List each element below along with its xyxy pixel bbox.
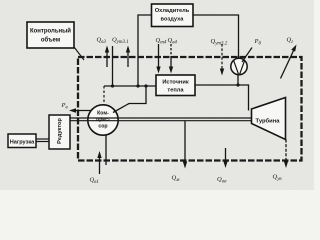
- svg-text:тепла: тепла: [167, 88, 184, 94]
- fan/blower circle (Pб): [231, 58, 247, 74]
- arrow Qв1 (up into compressor, crosses bottom boundary): [97, 151, 101, 174]
- control volume dashed boundary: [78, 57, 302, 161]
- arrow Qут3.2 (dashed, down, crosses top boundary): [220, 44, 224, 76]
- wire: shaft gearbox-compressor (double line, crosses boundary): [70, 118, 89, 121]
- node: junction dot at fan drop: [236, 83, 239, 86]
- arrow Qв4 (down into heat source, upper part dashed): [169, 44, 173, 74]
- svg-text:Турбина: Турбина: [256, 118, 281, 125]
- arrow Qг (diagonal up-right, crosses top boundary): [281, 45, 297, 79]
- wire: manifold line to heat source: [104, 85, 156, 87]
- wire: fan bottom to hot pipe: [237, 75, 239, 85]
- arrow Qм mechanical loss (from shaft down through bottom boundary): [183, 121, 187, 169]
- svg-text:объем: объем: [41, 37, 61, 44]
- wire: cooler right side pipe to fan: [193, 15, 239, 58]
- wire: dashed drop from manifold to compressor top: [103, 86, 105, 105]
- arrow Qов (down through bottom boundary): [223, 148, 227, 168]
- compressor circle: [88, 105, 118, 135]
- wire: shaft load-gearbox (double line): [36, 139, 49, 142]
- box "Редуктор" (gearbox, vertical text): [49, 115, 70, 149]
- label box "Контрольный объем": [27, 22, 74, 48]
- wire: pipe B from cooler left side down to manifold: [138, 15, 152, 86]
- svg-text:Охладитель: Охладитель: [155, 8, 190, 14]
- svg-text:Источник: Источник: [162, 80, 189, 86]
- wire: compressor outlet to manifold: [113, 86, 146, 113]
- wire: shaft compressor-turbine (double line, passes through compressor): [88, 118, 252, 121]
- svg-text:сор: сор: [98, 124, 107, 130]
- svg-text:воздуха: воздуха: [161, 17, 185, 23]
- svg-text:Нагрузка: Нагрузка: [10, 139, 35, 145]
- box "Источник тепла" (heat source): [156, 75, 195, 96]
- node: junction dot pipe B: [136, 84, 139, 87]
- arrow Qв3 (up, crosses top boundary): [105, 46, 109, 68]
- compressor text: [96, 111, 110, 130]
- node: junction dot at outlet/manifold: [144, 84, 147, 87]
- svg-text:Ком-: Ком-: [97, 111, 109, 117]
- label Pб with leader: [242, 38, 261, 62]
- box "Охладитель воздуха" (air cooler): [152, 4, 194, 27]
- arrow Qув turbine exhaust (down through bottom boundary): [284, 140, 288, 169]
- wire: heat source right pipe to turbine inlet: [195, 85, 249, 111]
- arrow Pв power out (points left across boundary): [69, 108, 91, 112]
- arrow Qт4 (down into heat source): [156, 44, 160, 74]
- svg-text:Контрольный: Контрольный: [30, 28, 71, 35]
- turbine (trapezoid): [252, 98, 286, 140]
- box "Нагрузка" (load): [8, 134, 36, 148]
- wire: pipe A up from manifold (Qв3 branch): [112, 46, 114, 86]
- svg-text:прес-: прес-: [96, 117, 110, 123]
- svg-text:Редуктор: Редуктор: [57, 118, 63, 144]
- arrow Qут3.1 (up, crosses top boundary): [126, 46, 130, 68]
- node: junction dot pipe A: [111, 84, 114, 87]
- wire: compressor inlet pipe down through boundary: [105, 135, 107, 165]
- leader line from label box to boundary corner: [74, 47, 84, 60]
